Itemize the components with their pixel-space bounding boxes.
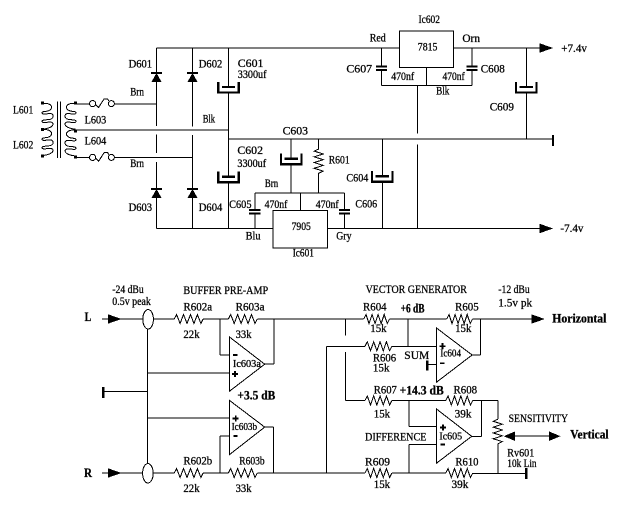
fuse F2 (bottom secondary) [77,156,89,158]
wire Ic605 output to feedback [472,435,482,437]
wire Ic604 inverting input [428,363,436,365]
svg-text:Vertical: Vertical [570,428,609,442]
wire from 7815 ground row down to -7.4v rail (gap at ground rail) [416,85,418,133]
wiper arrow Vertical output [505,432,515,440]
wire top rail +raw [157,47,400,49]
svg-text:+7.4v: +7.4v [561,41,587,55]
wire 7905 center pin [299,193,301,211]
wire R603a to feedback node [257,318,363,320]
wire R bus tap up to R606 [326,346,328,473]
op-amp IC603a [230,337,265,391]
svg-text:470nf: 470nf [443,69,465,83]
wire non-inverting input Ic603b [148,417,230,419]
wire 7815 center pin [426,68,428,86]
svg-text:7815: 7815 [418,39,438,53]
svg-text:R608: R608 [454,382,478,396]
svg-text:15k: 15k [374,477,390,491]
svg-text:15k: 15k [370,321,386,335]
wire Ic604 output [472,354,481,356]
wire L to R602a [153,318,174,320]
svg-text:470nf: 470nf [316,197,339,211]
ground terminal bar (pot) [525,468,528,479]
svg-text:1.5v pk: 1.5v pk [498,296,532,310]
svg-text:Red: Red [370,30,386,44]
svg-text:+3.5 dB: +3.5 dB [237,389,275,403]
svg-text:C606: C606 [355,197,377,211]
ground terminal bar (rail end) [552,135,554,146]
svg-text:SUM: SUM [404,348,429,362]
svg-text:C605: C605 [229,197,251,211]
svg-text:R601: R601 [329,153,350,167]
wire bridge leg1 mid [156,135,158,153]
svg-text:22k: 22k [183,327,199,341]
wire ground to common [104,390,148,392]
svg-text:470nf: 470nf [391,69,414,83]
wire R610 to pot bottom and ground [473,472,525,474]
svg-text:Brn: Brn [130,85,144,99]
svg-text:C603: C603 [283,123,308,137]
svg-text:39k: 39k [452,477,469,491]
wire Blk center tap [77,129,229,131]
svg-text:C607: C607 [346,61,372,75]
svg-text:C608: C608 [481,61,505,75]
svg-text:R610: R610 [455,455,478,469]
wire C603 lead joins row [290,166,292,193]
svg-text:Ic603b: Ic603b [232,422,258,433]
wire Ic603b output to R bus [265,426,274,428]
fuse F1 (top secondary) [77,103,89,105]
svg-text:Blu: Blu [246,229,261,243]
svg-text:R604: R604 [363,300,387,314]
svg-text:Gry: Gry [336,229,351,243]
node Blk junction / ground spine [228,130,230,172]
op-amp IC604 [437,328,473,382]
wire non-inverting input Ic603a [148,372,230,374]
wire bridge leg2 upper (gap at Blk crossing) [192,82,194,127]
svg-text:3300uf: 3300uf [237,156,266,170]
wire inverting input Ic603b [219,436,221,473]
svg-text:C604: C604 [346,171,368,185]
svg-text:L602: L602 [13,138,33,152]
wire L input [102,318,143,320]
svg-text:22k: 22k [183,481,199,495]
svg-text:L601: L601 [13,103,33,117]
svg-text:33k: 33k [236,481,252,495]
svg-text:Orn: Orn [462,31,480,45]
wire R605 to output node to Horizontal [473,318,534,320]
svg-text:R: R [84,465,93,480]
transformer core [56,102,58,159]
svg-text:Blk: Blk [436,83,449,97]
wire Brn top secondary to bridge [114,103,156,105]
wire non-inverting input Ic604 [408,345,437,347]
wire input common vertical [147,329,149,464]
op-amp IC603b [230,400,265,454]
svg-text:Ic605: Ic605 [439,432,462,443]
wire 7815 ground row [382,84,473,86]
svg-text:DIFFERENCE: DIFFERENCE [365,430,427,444]
svg-text:D603: D603 [129,200,153,214]
wire R609 to R610 [392,472,446,474]
svg-text:C602: C602 [237,143,263,157]
wire bridge leg1 lower [156,162,158,188]
svg-text:Ic602: Ic602 [419,12,441,26]
svg-text:L: L [85,309,92,324]
wire +7.4v output [454,47,542,49]
svg-text:39k: 39k [455,407,472,421]
svg-text:-12 dBu: -12 dBu [498,282,529,296]
wire R608 output row to pot [473,400,498,402]
svg-text:R609: R609 [365,455,390,469]
wire bridge leg1 upper (gap at Blk crossing) [156,104,158,126]
svg-text:L604: L604 [85,134,107,148]
svg-text:470nf: 470nf [265,197,288,211]
ground terminal bar (Ic604 inverting input) [426,361,429,371]
svg-text:7905: 7905 [292,219,311,233]
svg-text:+6 dB: +6 dB [401,301,425,315]
wire inverting input Ic605 [409,444,436,446]
wire Ic603a output to L bus [265,363,274,365]
svg-text:BUFFER PRE-AMP: BUFFER PRE-AMP [183,283,268,297]
svg-text:R607: R607 [374,382,397,396]
svg-text:VECTOR GENERATOR: VECTOR GENERATOR [366,282,467,296]
svg-text:Blk: Blk [203,111,215,125]
svg-text:Ic604: Ic604 [440,349,461,360]
svg-text:Horizontal: Horizontal [552,312,607,326]
svg-text:33k: 33k [236,327,252,341]
regulator IC601 7905 [273,211,328,249]
wire difference node down [408,401,410,427]
svg-text:C609: C609 [490,99,514,113]
wire inverting input Ic603a [219,319,221,355]
svg-text:Ic603a: Ic603a [233,359,261,370]
op-amp IC605 [437,409,472,463]
wire -raw rail to 7905 (Blu) [157,228,273,230]
svg-text:-7.4v: -7.4v [560,221,583,235]
wire R602a to R603a [203,318,228,320]
svg-text:15k: 15k [373,361,390,375]
svg-text:15k: 15k [374,407,390,421]
wire non-inverting input Ic605 [409,426,436,428]
svg-text:Ic601: Ic601 [293,246,314,260]
svg-text:D602: D602 [199,56,223,70]
svg-text:R602a: R602a [183,299,212,313]
svg-text:+14.3 dB: +14.3 dB [400,384,444,398]
wire R604 to R605 [390,318,447,320]
svg-text:R605: R605 [455,300,479,314]
wire R607 to R608 [392,400,446,402]
wire sum node down [407,319,409,346]
svg-text:SENSITIVITY: SENSITIVITY [509,411,569,425]
wire R bus [257,472,365,474]
svg-text:Brn: Brn [130,156,144,170]
wire Brn bottom secondary to bridge [114,156,192,158]
svg-text:R603b: R603b [239,454,265,468]
wire bridge leg2 mid [192,135,194,188]
wire R to R602b [153,472,174,474]
wire R602b to R603b [203,472,228,474]
wire L bus tap to R607 row [344,319,346,336]
svg-text:0.5v peak: 0.5v peak [112,294,151,308]
connector oval R [143,464,154,483]
svg-text:L603: L603 [85,113,107,127]
svg-text:D601: D601 [129,56,153,70]
wire -7.4v rail from 7905 (Gry) [328,228,541,230]
wire ground rail [229,138,553,140]
svg-text:D604: D604 [199,200,223,214]
svg-text:3300uf: 3300uf [238,67,267,81]
svg-text:10k Lin: 10k Lin [507,456,536,470]
wire R606 to node [392,345,408,347]
svg-text:R602b: R602b [183,454,212,468]
wire 7905 top row [255,192,345,194]
connector oval L [143,310,154,329]
svg-text:Brn: Brn [265,176,278,190]
ground terminal bar (input) [102,387,105,398]
svg-text:R603a: R603a [236,299,266,313]
wire R input [102,472,143,474]
